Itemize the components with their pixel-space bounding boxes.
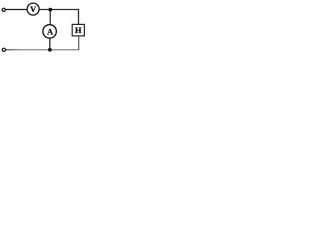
- wire bottom rail: terminal T2 to bottom-right corner: [6, 49, 80, 51]
- junction node (top): [48, 8, 52, 12]
- svg-text:A: A: [47, 27, 54, 37]
- terminal T1 (top-left, open circle): [2, 8, 5, 11]
- heater H (box): [72, 24, 84, 36]
- wire top rail: voltmeter to top-right corner and down to heater H top: [39, 10, 78, 25]
- wire top rail: terminal T1 to voltmeter: [5, 9, 27, 11]
- wire: bottom-right corner up to heater H bottom: [78, 36, 80, 50]
- wire: ammeter A bottom down to bottom rail: [49, 38, 51, 50]
- wire: top junction down to ammeter A top: [49, 10, 51, 26]
- junction node (bottom): [48, 48, 52, 52]
- voltmeter V (circle): [27, 3, 39, 15]
- svg-text:H: H: [75, 26, 82, 35]
- terminal T2 (bottom-left, open circle): [2, 48, 5, 51]
- ammeter A (circle): [43, 25, 57, 39]
- svg-text:V: V: [30, 4, 37, 14]
